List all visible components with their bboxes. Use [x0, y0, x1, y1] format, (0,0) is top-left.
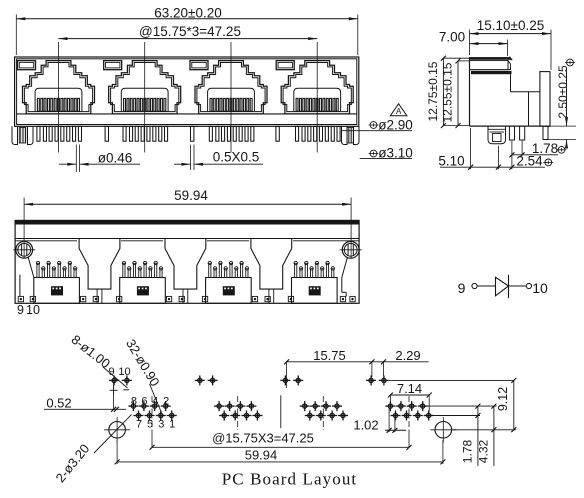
svg-text:7.14: 7.14 — [397, 381, 422, 396]
svg-text:12.75±0.15: 12.75±0.15 — [426, 61, 440, 121]
svg-text:7.00: 7.00 — [439, 29, 465, 44]
svg-text:9: 9 — [458, 280, 466, 296]
svg-text:10: 10 — [532, 280, 548, 296]
svg-text:59.94: 59.94 — [174, 188, 208, 203]
svg-text:1: 1 — [169, 419, 175, 431]
svg-text:0.52: 0.52 — [46, 396, 71, 411]
svg-text:3: 3 — [158, 419, 164, 431]
svg-text:10: 10 — [26, 303, 40, 317]
svg-text:@15.75*3=47.25: @15.75*3=47.25 — [139, 24, 241, 39]
svg-text:ø2.90: ø2.90 — [378, 117, 413, 132]
svg-text:59.94: 59.94 — [245, 448, 278, 463]
svg-text:63.20±0.20: 63.20±0.20 — [154, 6, 221, 21]
svg-text:2: 2 — [163, 395, 169, 407]
svg-text:1.78: 1.78 — [532, 141, 558, 156]
svg-text:9: 9 — [17, 303, 24, 317]
svg-text:0.5X0.5: 0.5X0.5 — [213, 150, 260, 165]
svg-text:2.50±0.25: 2.50±0.25 — [556, 65, 570, 119]
svg-text:7: 7 — [136, 419, 142, 431]
svg-text:PC Board Layout: PC Board Layout — [222, 470, 358, 489]
svg-text:12.55±0.15: 12.55±0.15 — [441, 62, 455, 122]
svg-text:15.75: 15.75 — [313, 348, 346, 363]
svg-text:4.32: 4.32 — [477, 439, 491, 463]
svg-text:8: 8 — [131, 395, 137, 407]
svg-text:2.29: 2.29 — [395, 348, 420, 363]
svg-text:A: A — [396, 107, 402, 116]
svg-text:6: 6 — [141, 395, 147, 407]
svg-text:ø3.10: ø3.10 — [378, 145, 413, 160]
svg-text:15.10±0.25: 15.10±0.25 — [477, 18, 544, 33]
svg-text:5.10: 5.10 — [438, 153, 464, 168]
svg-text:9.12: 9.12 — [496, 387, 510, 411]
svg-text:1.02: 1.02 — [353, 418, 378, 433]
svg-text:5: 5 — [147, 419, 153, 431]
svg-text:1.78: 1.78 — [461, 439, 475, 463]
svg-text:ø0.46: ø0.46 — [98, 150, 133, 165]
svg-text:@15.75X3=47.25: @15.75X3=47.25 — [212, 431, 314, 446]
svg-text:10: 10 — [118, 366, 130, 378]
